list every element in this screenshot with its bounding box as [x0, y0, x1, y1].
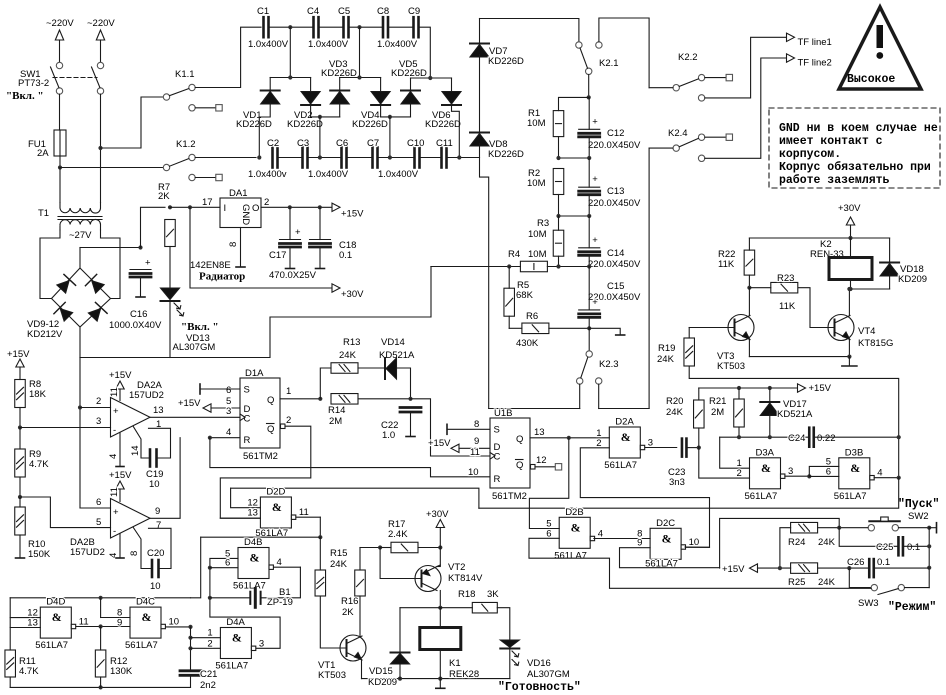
resistor R23 — [771, 282, 798, 293]
wire C14 bottom — [588, 256, 590, 267]
wire C26 tap to SW3 — [849, 568, 871, 588]
terminal TF line1 — [787, 33, 795, 41]
wire VD1 top — [269, 78, 271, 91]
svg-text:3K: 3K — [487, 589, 499, 600]
node vd23 bottom — [318, 115, 322, 119]
capacitor C3 — [303, 148, 308, 168]
bubble U1B Q12 — [531, 465, 536, 470]
diode bridge VD9-12 diamond — [52, 268, 111, 327]
svg-text:561LA7: 561LA7 — [35, 640, 68, 651]
svg-text:12: 12 — [536, 455, 547, 466]
svg-text:4: 4 — [277, 557, 282, 568]
svg-text:-: - — [113, 425, 116, 436]
wire D1A notQ route — [220, 426, 310, 518]
svg-text:KT503: KT503 — [717, 361, 745, 372]
wire C25 left — [839, 528, 898, 547]
svg-text:1.0x400V: 1.0x400V — [248, 39, 289, 50]
wire C18 bottom — [319, 247, 321, 268]
svg-text:3: 3 — [788, 466, 793, 477]
svg-text:D1A: D1A — [245, 368, 264, 379]
wire R16 bottom to VT1 collector — [359, 596, 361, 636]
terminal +15V DA2B — [116, 481, 124, 489]
terminator bar DA2A pin4 — [116, 466, 124, 468]
wire bus bottom — [10, 686, 190, 688]
gate D2C — [650, 528, 685, 559]
wire D2A pin2 route — [580, 448, 709, 548]
svg-text:"Вкл. ": "Вкл. " — [6, 90, 44, 102]
svg-text:561TM2: 561TM2 — [243, 451, 278, 462]
svg-text:10M: 10M — [527, 118, 546, 129]
wire C24 row corner to D3A pin1 — [720, 437, 750, 468]
svg-text:6: 6 — [546, 528, 551, 539]
svg-text:R24: R24 — [788, 537, 805, 548]
svg-text:2: 2 — [286, 415, 291, 426]
svg-text:S: S — [494, 425, 500, 436]
wire K2.1 right top rail — [599, 18, 649, 88]
svg-text:3: 3 — [648, 438, 653, 449]
capacitor C1 — [264, 17, 269, 37]
node relay top — [848, 236, 852, 240]
svg-text:AL307GM: AL307GM — [527, 669, 570, 680]
svg-text:6: 6 — [96, 497, 101, 508]
node relay bottom — [848, 287, 852, 291]
riser node C5C8 to diodes — [359, 27, 361, 77]
svg-text:18K: 18K — [29, 389, 47, 400]
wire C5-C8 — [349, 26, 384, 28]
svg-text:-: - — [113, 526, 116, 537]
capacitor C20 — [152, 560, 159, 577]
wire bus537 — [201, 536, 321, 538]
wire R3 top — [558, 216, 560, 230]
svg-text:561LA7: 561LA7 — [125, 640, 158, 651]
diode VD18 — [880, 263, 899, 277]
svg-text:~220V: ~220V — [87, 18, 115, 29]
wire DA2A pin2 — [80, 407, 111, 409]
svg-text:R4: R4 — [508, 249, 520, 260]
op-amp DA2B — [111, 499, 151, 539]
terminal square K1.2 aux — [216, 174, 222, 180]
wire R9R10 link — [19, 497, 21, 507]
wire VD1 bottom jog — [259, 103, 270, 158]
svg-text:&: & — [571, 520, 581, 534]
node R22 R23 — [747, 286, 751, 290]
wire D1A pin4 — [210, 437, 240, 439]
resistor R2 — [553, 169, 564, 195]
svg-text:C5: C5 — [338, 6, 350, 17]
wire R4 right — [547, 266, 589, 268]
wire output gnd bus — [362, 678, 510, 680]
wire R13 left riser — [320, 368, 331, 399]
terminal +30V out — [436, 520, 444, 528]
node R1 top — [587, 95, 591, 99]
wire bridge minus down — [79, 327, 81, 358]
terminal +15V U1B pin9 — [451, 444, 459, 452]
wire r12 column top — [100, 598, 102, 618]
node r1c12 b — [587, 156, 591, 160]
switch K2.1 lever — [580, 48, 588, 68]
node 220V tap for K1.1 — [98, 146, 102, 150]
svg-text:Q: Q — [267, 395, 274, 406]
capacitor C15 — [579, 297, 600, 318]
svg-text:3n3: 3n3 — [669, 477, 685, 488]
wire VD5 top — [410, 78, 412, 91]
svg-text:2: 2 — [264, 197, 269, 208]
wire top rail VD7-K2.1 — [480, 19, 579, 42]
svg-text:~27V: ~27V — [69, 230, 92, 241]
svg-text:13: 13 — [247, 508, 258, 519]
svg-text:10: 10 — [150, 581, 161, 592]
wire C24 right — [814, 436, 899, 438]
wire C21 column — [190, 627, 192, 670]
svg-text:13: 13 — [534, 427, 545, 438]
wire R24 left drop — [780, 528, 791, 568]
svg-text:VD14: VD14 — [381, 337, 405, 348]
wire D4A pin2 — [191, 647, 221, 649]
svg-text:561LA7: 561LA7 — [745, 491, 778, 502]
svg-text:1.0: 1.0 — [382, 430, 395, 441]
wire R15 to VT1 base — [320, 596, 346, 648]
wire VD3 bottom — [339, 103, 341, 117]
svg-text:D2B: D2B — [565, 507, 583, 518]
svg-text:&: & — [141, 610, 151, 624]
svg-text:561LA7: 561LA7 — [215, 661, 248, 672]
node VD15 bottom — [398, 677, 402, 681]
resistor R1 — [553, 111, 564, 137]
wire VT2 collector — [439, 591, 441, 608]
wire C11 to VD8 column — [447, 157, 480, 159]
flip-flop U1B — [490, 418, 530, 488]
svg-text:"Пуск": "Пуск" — [898, 498, 939, 511]
wire DA2B pin4 — [119, 534, 121, 559]
wire SW2 right — [899, 527, 930, 529]
node reset line — [208, 436, 212, 440]
node hv bottom — [587, 326, 591, 330]
svg-text:2: 2 — [737, 468, 742, 479]
wire K2.4 column down — [648, 148, 650, 408]
wire K1.1 common tap — [101, 97, 164, 148]
svg-text:+15V: +15V — [7, 349, 30, 360]
node B1 left tap — [208, 596, 212, 600]
LED VD16 — [500, 640, 519, 666]
wire +30V column — [439, 528, 441, 566]
svg-text:TF line2: TF line2 — [798, 58, 832, 69]
wire gnd stub relay — [848, 357, 850, 366]
svg-text:C: C — [244, 414, 251, 425]
wire node to K1.2 — [60, 167, 163, 169]
switch K2.2 lower contact — [698, 95, 704, 101]
wire VD4 bottom — [380, 105, 382, 117]
svg-text:R23: R23 — [777, 273, 794, 284]
switch SW3 contacts — [871, 584, 877, 590]
switch K1.2 upper contact — [189, 154, 195, 160]
wire VT4 emitter — [848, 340, 850, 357]
wire K2.4 upper stub — [705, 136, 726, 138]
regulator DA1 — [220, 198, 261, 228]
node C25 tap — [837, 526, 841, 530]
svg-text:R19: R19 — [658, 343, 675, 354]
switch K1.1 lever — [170, 89, 189, 96]
node C16 plus — [138, 245, 142, 249]
wire K1.1 to C1 riser — [195, 27, 261, 87]
svg-text:14: 14 — [130, 445, 141, 456]
terminal square K2.4 — [726, 134, 732, 140]
wire DA2B pin6 — [80, 507, 111, 509]
switch SW1 link — [53, 77, 97, 79]
svg-text:PT73-2: PT73-2 — [18, 78, 49, 89]
wire hv column to K2.3 — [588, 328, 590, 351]
wire C16 to ground — [140, 277, 142, 297]
switch K2.3 lever — [581, 357, 588, 378]
svg-text:10: 10 — [149, 479, 160, 490]
wire VT3 emitter — [748, 340, 750, 357]
terminal square K2.2 — [726, 74, 732, 80]
svg-text:10: 10 — [689, 537, 700, 548]
svg-text:R15: R15 — [330, 548, 347, 559]
svg-text:K2.3: K2.3 — [599, 359, 619, 370]
wire frame bottom — [479, 478, 899, 509]
ground C16 — [136, 296, 145, 298]
wire D2C pin9 to SW column — [720, 518, 840, 568]
capacitor C16 — [130, 258, 151, 278]
node bus597 r12 — [99, 596, 103, 600]
wire D2D out — [296, 516, 320, 518]
node C17 top — [288, 205, 292, 209]
wire D4C pin8 — [101, 617, 130, 619]
wire VD7 top to K2.1 — [479, 19, 481, 44]
wire D4D pin13 drop — [10, 618, 40, 628]
wire VT1 emitter — [361, 660, 363, 679]
wire VD8 bottom to frame — [480, 144, 489, 409]
diode VD7 — [470, 44, 489, 58]
ground R10 — [16, 557, 25, 559]
node vd45 bottom — [388, 115, 392, 119]
ground K1 — [436, 687, 445, 689]
wire K2.2 upper stub — [705, 77, 726, 79]
svg-text:&: & — [249, 551, 259, 565]
wire T1 secondary right to bridge — [101, 230, 121, 299]
node C18 top — [318, 205, 322, 209]
terminal arrow ~220V line2 — [96, 30, 104, 40]
svg-text:6: 6 — [826, 466, 831, 477]
wire C20 to pin7 — [149, 528, 172, 568]
wire R21 bottom — [738, 427, 740, 437]
wire R9 bottom — [19, 477, 21, 497]
fuse FU1 — [54, 130, 66, 156]
wire feedback to R4 — [431, 266, 521, 268]
svg-text:+: + — [113, 406, 119, 417]
terminal arrow ~220V line1 — [55, 30, 63, 40]
wire R16 top — [359, 548, 361, 571]
wire R10 bottom — [19, 535, 21, 558]
wire D2C pin9 route — [620, 548, 720, 568]
svg-text:1: 1 — [286, 386, 291, 397]
svg-text:D4B: D4B — [244, 537, 262, 548]
wire C15 top — [588, 267, 590, 310]
wire to D3B pin5 — [809, 466, 839, 476]
wire relay bottom to VD18 — [851, 288, 890, 290]
svg-text:корпусом.: корпусом. — [779, 148, 841, 161]
svg-text:+: + — [592, 297, 598, 308]
svg-text:C15: C15 — [607, 281, 624, 292]
wire to DA2A pin3 — [20, 427, 111, 429]
wire VD15 top — [399, 608, 401, 653]
svg-text:1.0x400V: 1.0x400V — [308, 169, 349, 180]
node R21 top — [737, 386, 741, 390]
wire R15 top — [319, 537, 321, 570]
svg-text:&: & — [662, 531, 672, 545]
node vd12 top — [288, 75, 292, 79]
terminal +30V (rectifier) — [332, 284, 340, 292]
svg-text:1000.0X40V: 1000.0X40V — [109, 320, 162, 331]
node r2c13 b — [587, 214, 591, 218]
wire VD18 bottom — [889, 274, 891, 290]
switch SW1 pole2 lever — [92, 67, 101, 88]
switch SW3 lever — [878, 589, 898, 595]
svg-text:13: 13 — [27, 618, 38, 629]
resistor R5 — [504, 288, 515, 316]
resistor R9 — [15, 449, 26, 477]
ground HV divider — [616, 334, 625, 336]
resistor R6 — [522, 323, 549, 334]
node bus bottom r12 — [99, 685, 103, 689]
transformer T1 core — [58, 216, 102, 218]
svg-text:2M: 2M — [711, 407, 724, 418]
resistor R22 — [744, 250, 755, 275]
wire VD1-VD2 top — [270, 77, 310, 79]
svg-text:R: R — [244, 435, 251, 446]
wire minus rail down — [79, 358, 81, 509]
wire DA1 out +15V — [261, 206, 331, 208]
wire K2.1 out — [588, 75, 590, 98]
gate D4A — [220, 628, 255, 659]
wire R8 top — [19, 367, 21, 380]
svg-text:9: 9 — [117, 618, 122, 629]
wire VT4 collector — [848, 289, 850, 316]
wire D2C out — [685, 546, 710, 548]
switch K1.1 aux contact — [189, 105, 195, 111]
svg-text:1.0x400V: 1.0x400V — [378, 169, 419, 180]
svg-text:D4C: D4C — [136, 597, 155, 608]
capacitor C9 — [414, 17, 419, 37]
svg-text:+: + — [295, 227, 301, 238]
svg-text:561LA7: 561LA7 — [554, 550, 587, 561]
diode VD10 (bridge upper-right) — [85, 274, 105, 294]
switch K1.2 lever — [170, 159, 189, 167]
wire K1.2 aux stub — [195, 177, 215, 179]
svg-text:24K: 24K — [666, 407, 684, 418]
diode VD9 (bridge upper-left) — [55, 274, 75, 294]
transistor VT1 — [340, 635, 366, 661]
wire R22 bottom — [748, 275, 750, 288]
switch K2.1 fixed contact left — [576, 42, 582, 48]
wire C8-C9 — [388, 26, 414, 28]
wire D1A Q out — [280, 398, 320, 400]
svg-text:&: & — [761, 461, 771, 475]
ground DA1 pin8 — [236, 266, 245, 268]
node r1c12 a — [556, 156, 560, 160]
wire VD4 top — [380, 78, 382, 92]
transformer T1 secondary coil — [60, 219, 101, 230]
transistor VT3 — [728, 315, 754, 341]
svg-text:KT814V: KT814V — [448, 573, 483, 584]
resistor R3 — [553, 230, 564, 256]
node r4 right — [587, 264, 591, 268]
svg-text:KT503: KT503 — [318, 670, 346, 681]
diode VD17 — [760, 402, 779, 416]
wire +30V stem — [850, 225, 852, 238]
flip-flop D1A — [240, 378, 280, 448]
wire Q to D2B pin5 — [529, 438, 568, 529]
svg-text:C1: C1 — [257, 6, 269, 17]
wire emitters common — [749, 356, 849, 358]
wire relay K2 bottom — [850, 280, 852, 290]
resistor R19 — [684, 338, 695, 366]
svg-text:VD15: VD15 — [369, 666, 393, 677]
wire bridge minus rail — [80, 267, 431, 358]
wire R2 bottom — [558, 195, 560, 217]
svg-text:2K: 2K — [342, 607, 354, 618]
resistor R15 — [315, 570, 326, 596]
svg-text:C24: C24 — [788, 433, 805, 444]
wire C24 row — [720, 436, 809, 438]
switch K1.2 aux contact — [189, 174, 195, 180]
node D3B out frame — [897, 476, 901, 480]
node R15 top bus — [318, 535, 322, 539]
wire C13 bottom — [588, 195, 590, 216]
wire to R23 — [749, 287, 770, 289]
node K1 gnd — [438, 677, 442, 681]
svg-text:C2: C2 — [267, 138, 279, 149]
svg-text:C25: C25 — [876, 542, 893, 553]
terminal +15V R8 — [16, 359, 24, 367]
wire R19 bottom to frame — [689, 366, 899, 478]
wire C16 node to supply rail — [141, 207, 166, 247]
svg-text:470.0X25V: 470.0X25V — [269, 270, 317, 281]
svg-text:13: 13 — [153, 405, 164, 416]
svg-text:D4D: D4D — [46, 597, 65, 608]
svg-text:+: + — [145, 258, 151, 269]
svg-text:S: S — [244, 385, 250, 396]
wire VD15 bottom — [399, 664, 401, 679]
svg-text:GND: GND — [240, 204, 251, 225]
svg-text:10: 10 — [468, 467, 479, 478]
capacitor C13 — [579, 174, 600, 195]
svg-text:1.0x400V: 1.0x400V — [308, 39, 349, 50]
node C22 top — [408, 397, 412, 401]
wire reset line — [210, 438, 490, 477]
diode VD12 (bridge lower-right) — [87, 302, 107, 322]
ground C17 — [286, 268, 295, 270]
svg-text:D2A: D2A — [615, 417, 634, 428]
svg-text:3: 3 — [259, 638, 264, 649]
wire K2.4 feed — [649, 147, 673, 149]
diode VD5 — [401, 91, 420, 105]
wire D4C out — [166, 626, 191, 628]
wire C17 bottom — [289, 247, 291, 268]
wire hv gnd stub — [589, 328, 620, 334]
svg-text:+30V: +30V — [341, 289, 364, 300]
wire C21 bottom — [190, 676, 192, 687]
svg-text:2.4K: 2.4K — [388, 529, 408, 540]
ground C22 — [406, 436, 415, 438]
svg-text:0.1: 0.1 — [339, 250, 352, 261]
svg-text:11: 11 — [299, 507, 309, 518]
wire SW1 pole1 to FU1 — [59, 94, 61, 130]
wire C2-C3 — [278, 157, 303, 159]
svg-text:KT815G: KT815G — [858, 338, 893, 349]
wire R13 to VD14 — [358, 367, 385, 369]
svg-text:R16: R16 — [341, 596, 358, 607]
